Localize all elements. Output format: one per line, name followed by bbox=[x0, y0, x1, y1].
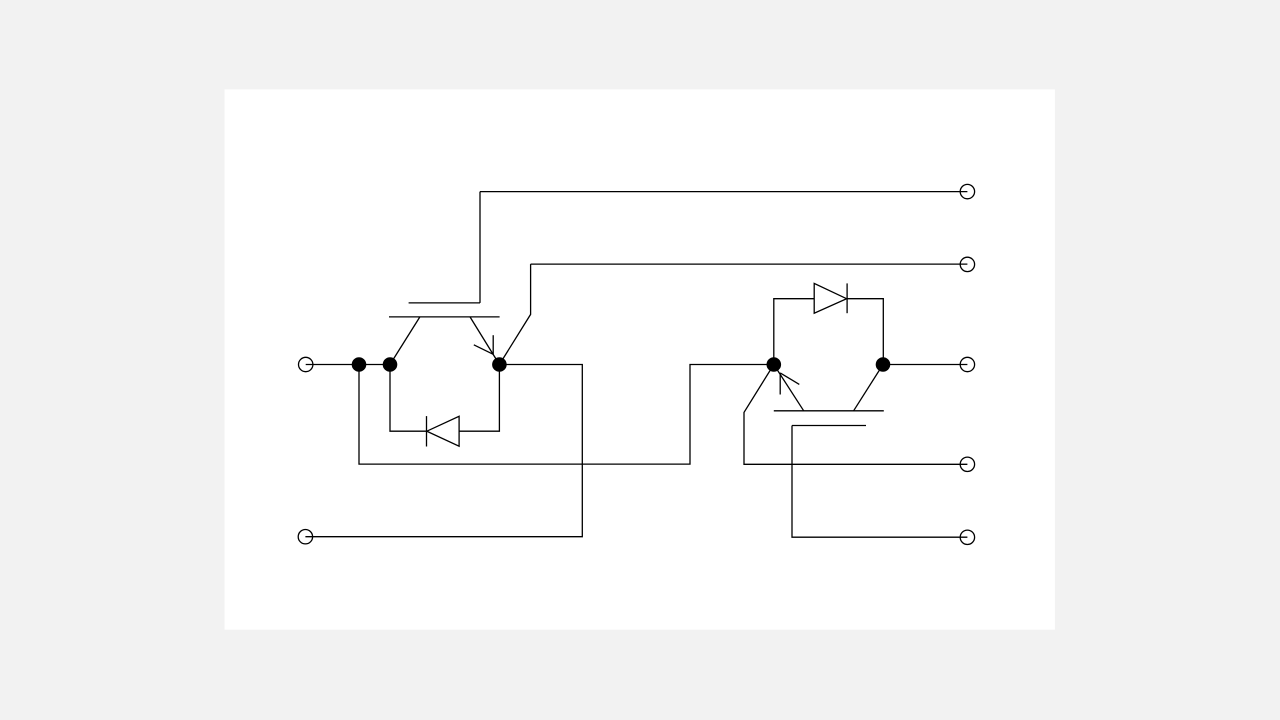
diode D2 bbox=[774, 283, 884, 364]
wire: node D2 right to terminal 3 bbox=[883, 364, 967, 366]
terminal 1 bbox=[960, 184, 974, 198]
wire: Q1 gate vertical lead bbox=[479, 192, 481, 303]
wire: Q2 gate lead down and right to terminal 5 bbox=[792, 426, 967, 538]
terminal 2 bbox=[960, 257, 974, 271]
diode D1 bbox=[390, 365, 499, 447]
junction node C2 bbox=[767, 357, 782, 372]
terminal 3 bbox=[960, 357, 974, 371]
wire: terminal 2 vertical + diagonal to node E1 bbox=[499, 264, 530, 364]
wire: node A1 down, across, up to node C2 bbox=[359, 365, 774, 465]
schematic sheet background bbox=[225, 89, 1055, 629]
wire: terminal 1 to Q1 gate lead bbox=[480, 191, 967, 193]
wire: node C2 diagonal down to terminal 4 bbox=[744, 365, 967, 465]
wire: left terminal to node B1 bbox=[306, 364, 390, 366]
wire: terminal 2 horizontal bbox=[531, 263, 968, 265]
terminal 5 bbox=[960, 530, 974, 544]
IGBT Q1 bbox=[389, 303, 500, 365]
junction node B1 bbox=[383, 357, 398, 372]
junction node A1 bbox=[352, 357, 367, 372]
wire: node E1 right, down, left to bottom-left terminal bbox=[305, 365, 582, 537]
terminal 4 bbox=[960, 457, 974, 471]
junction node E1 bbox=[492, 357, 507, 372]
terminal left bottom bbox=[298, 530, 312, 544]
IGBT Q2 bbox=[774, 365, 884, 426]
terminal left middle bbox=[299, 357, 313, 371]
junction node D2 bbox=[876, 357, 891, 372]
